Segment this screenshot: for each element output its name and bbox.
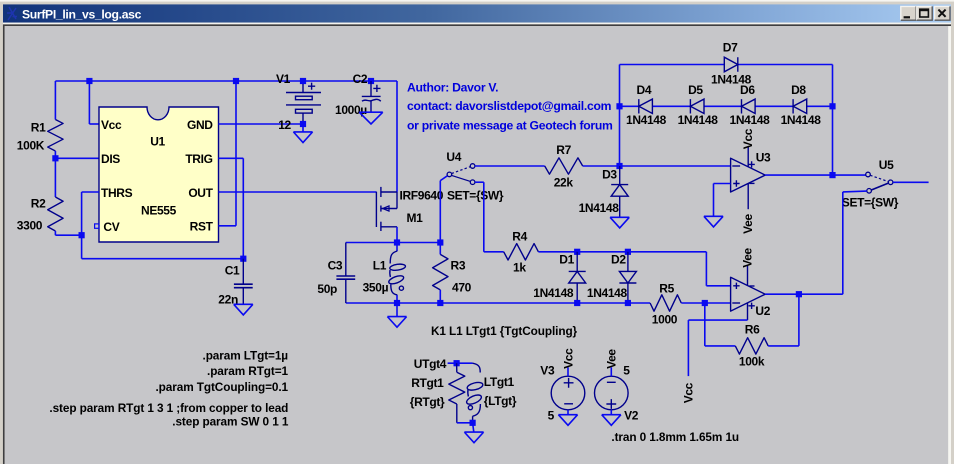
wire D3 node to U3	[620, 165, 731, 167]
diode D1	[576, 252, 578, 272]
svg-text:.param RTgt=1: .param RTgt=1	[207, 364, 289, 378]
ground U3 plus input	[704, 216, 723, 227]
svg-text:SurfPI_lin_vs_log.asc: SurfPI_lin_vs_log.asc	[22, 7, 142, 21]
node DIS junction	[52, 155, 58, 161]
node C1 junction	[240, 256, 246, 262]
V2 minus sign	[607, 381, 616, 383]
svg-text:U5: U5	[879, 158, 894, 172]
svg-text:U2: U2	[755, 304, 770, 318]
svg-text:C1: C1	[225, 264, 240, 278]
wire Vcc top rail	[55, 80, 397, 82]
diode D2	[627, 252, 629, 272]
wire right riser	[832, 65, 834, 176]
svg-text:R2: R2	[31, 197, 46, 211]
svg-text:D6: D6	[740, 83, 755, 97]
svg-text:1000: 1000	[652, 313, 678, 327]
svg-text:C2: C2	[353, 72, 368, 86]
U2 Vcc stub	[747, 303, 749, 320]
node left riser/diode-row junction	[616, 103, 622, 109]
node L1 bottom junction	[394, 300, 400, 306]
svg-text:3300: 3300	[17, 219, 43, 233]
wire left riser	[619, 65, 621, 167]
pin CV open marker	[95, 224, 99, 228]
wire GND pin to V1	[219, 123, 304, 125]
voltage source V2	[595, 376, 629, 410]
svg-text:Vee: Vee	[741, 213, 755, 233]
svg-text:R4: R4	[512, 230, 527, 244]
svg-text:.param TgtCoupling=0.1: .param TgtCoupling=0.1	[156, 380, 289, 394]
wire OUT to M1 gate	[219, 191, 377, 193]
svg-text:SET={SW}: SET={SW}	[842, 196, 899, 210]
wire R6 right riser	[798, 294, 800, 346]
svg-text:22k: 22k	[554, 175, 574, 189]
diode D3	[619, 166, 621, 185]
transistor M1 IRF9640	[375, 192, 377, 227]
svg-text:Author: Davor V.: Author: Davor V.	[407, 81, 498, 95]
node V1 bottom junction	[300, 121, 306, 127]
svg-text:R7: R7	[556, 143, 571, 157]
wire R6 left riser	[704, 303, 706, 346]
wire V1 top	[302, 81, 304, 93]
svg-text:1N4148: 1N4148	[587, 286, 628, 300]
svg-text:1N4148: 1N4148	[533, 286, 574, 300]
svg-text:1N4148: 1N4148	[781, 113, 822, 127]
svg-text:LTgt1: LTgt1	[484, 375, 515, 389]
svg-text:NE555: NE555	[141, 204, 177, 218]
svg-text:1N4148: 1N4148	[579, 201, 620, 215]
svg-text:D1: D1	[559, 252, 574, 266]
wire DIS	[55, 157, 99, 159]
resistor R1	[48, 120, 63, 152]
close button	[935, 6, 950, 20]
node U2 output junction	[796, 291, 802, 297]
node UTgt4 top junction	[454, 360, 460, 366]
node Vcc drop junction	[86, 78, 92, 84]
wire THRS	[82, 191, 99, 193]
svg-text:THRS: THRS	[101, 186, 133, 200]
svg-text:OUT: OUT	[188, 186, 213, 200]
wire D7 row	[620, 64, 725, 66]
node R5/R6 junction	[702, 300, 708, 306]
switch U4	[447, 172, 452, 177]
svg-text:D3: D3	[602, 168, 617, 182]
U2 minus input sign	[732, 302, 740, 304]
wire U4 throw2 to R4	[475, 181, 484, 183]
wire R2 to THRS column	[55, 234, 81, 236]
node R3 bottom junction	[437, 300, 443, 306]
U3 plus input sign	[733, 180, 739, 186]
wire RST to Vcc rail	[219, 225, 237, 227]
svg-text:CV: CV	[103, 220, 119, 234]
wire M1 drain	[396, 227, 398, 243]
app icon	[7, 7, 17, 20]
wire R1-R2	[54, 151, 56, 197]
capacitor C3	[345, 243, 347, 277]
wire M1 source from rail	[396, 81, 398, 192]
ground tank	[396, 303, 398, 317]
svg-text:100K: 100K	[17, 139, 45, 153]
voltage source V1 battery	[286, 92, 321, 94]
svg-text:contact: davorslistdepot@gmail: contact: davorslistdepot@gmail.com	[407, 99, 612, 113]
U3 minus input sign	[732, 165, 740, 167]
inductor LTgt1	[473, 363, 481, 372]
U2 plus input sign	[733, 283, 739, 289]
svg-text:U4: U4	[446, 150, 461, 164]
V3 minus sign	[564, 403, 573, 405]
svg-text:TRIG: TRIG	[185, 152, 212, 166]
svg-text:Vee: Vee	[741, 247, 755, 267]
resistor R6	[705, 345, 736, 347]
C2 plus sign	[373, 85, 380, 92]
voltage source V3	[551, 376, 585, 410]
node UTgt4 bottom junction	[470, 420, 476, 426]
svg-text:{LTgt}: {LTgt}	[484, 394, 517, 408]
wire UTgt4 top	[448, 362, 473, 364]
svg-text:Vcc: Vcc	[681, 382, 695, 403]
wire U5 throw2 to U2 output	[843, 190, 867, 193]
svg-text:M1: M1	[407, 211, 424, 225]
svg-text:5: 5	[548, 408, 555, 422]
node D2 top junction	[625, 249, 631, 255]
node D1 top junction	[574, 249, 580, 255]
svg-text:D7: D7	[723, 41, 738, 55]
wire R2 bottom lead	[54, 231, 56, 235]
V3 top stub	[567, 367, 569, 376]
svg-text:.param LTgt=1µ: .param LTgt=1µ	[203, 349, 289, 363]
ground C1	[234, 304, 253, 315]
svg-text:SET={SW}: SET={SW}	[447, 189, 504, 203]
ground D3	[610, 217, 629, 228]
wire tank bottom rail	[346, 302, 650, 304]
resistor R5	[650, 295, 681, 311]
op-amp U1 body (NE555 box)	[99, 107, 219, 242]
svg-text:RTgt1: RTgt1	[411, 376, 444, 390]
svg-text:or private message at Geotech: or private message at Geotech forum	[407, 119, 613, 133]
svg-text:50p: 50p	[317, 282, 337, 296]
wire tank top rail	[346, 242, 441, 244]
wire UTgt4 bottom	[457, 422, 473, 424]
wire Vcc drop	[88, 81, 90, 124]
diode D6	[742, 99, 756, 113]
wire U3 output	[765, 174, 866, 176]
wire U2 Vcc net	[688, 319, 747, 321]
svg-text:350µ: 350µ	[363, 280, 389, 294]
node D3 junction	[616, 163, 622, 169]
svg-text:100k: 100k	[739, 355, 765, 369]
wire THRS to C1	[82, 258, 244, 260]
svg-text:1N4148: 1N4148	[730, 113, 771, 127]
svg-text:D4: D4	[637, 83, 652, 97]
svg-text:R1: R1	[31, 120, 46, 134]
svg-text:V1: V1	[276, 72, 291, 86]
resistor RTgt1	[456, 363, 458, 372]
svg-text:V2: V2	[624, 408, 639, 422]
node C2 top junction	[368, 78, 374, 84]
svg-text:V3: V3	[540, 364, 555, 378]
svg-text:K1 L1 LTgt1 {TgtCoupling}: K1 L1 LTgt1 {TgtCoupling}	[431, 324, 578, 338]
V3 plus sign	[564, 378, 574, 388]
switch U5	[866, 172, 871, 177]
V1 plus sign	[308, 83, 315, 90]
U2 plus supply sign	[748, 303, 754, 309]
svg-text:.step param SW 0 1 1: .step param SW 0 1 1	[172, 415, 289, 429]
U2 Vee stub	[747, 265, 749, 286]
minimize button	[901, 6, 916, 20]
U3 Vcc stub	[747, 147, 749, 167]
svg-text:.tran 0 1.8mm 1.65m 1u: .tran 0 1.8mm 1.65m 1u	[611, 430, 739, 444]
svg-text:U3: U3	[756, 151, 771, 165]
wire R1 top lead	[54, 81, 56, 120]
node D2 bottom junction	[625, 300, 631, 306]
svg-text:Vcc: Vcc	[561, 348, 575, 369]
svg-text:D2: D2	[611, 252, 626, 266]
svg-text:R3: R3	[451, 259, 466, 273]
svg-text:Vcc: Vcc	[741, 128, 755, 149]
node U3 output junction	[829, 172, 835, 178]
diode D7	[724, 57, 738, 72]
wire R5 to U2 minus	[681, 302, 730, 304]
diode D8	[793, 99, 807, 113]
op-amp U3	[731, 158, 766, 192]
wire U4 throw1 to R7	[475, 165, 545, 167]
svg-text:D8: D8	[791, 83, 806, 97]
wire U5 common out	[893, 181, 929, 183]
svg-text:D5: D5	[688, 83, 703, 97]
wire R7 to D3 node	[583, 165, 620, 167]
svg-text:GND: GND	[187, 118, 213, 132]
svg-text:.step param RTgt 1 3 1 ;from c: .step param RTgt 1 3 1 ;from copper to l…	[49, 401, 288, 415]
V2 top stub	[610, 367, 612, 376]
wire diode row	[620, 105, 639, 107]
wire R4 to U2 row	[538, 251, 706, 253]
resistor R4	[484, 251, 504, 253]
V2 plus sign	[606, 399, 616, 409]
U3 minus supply sign	[749, 182, 754, 184]
wire TRIG	[219, 157, 244, 159]
svg-text:C3: C3	[328, 259, 343, 273]
ground UTgt4	[473, 423, 474, 432]
inductor L1	[396, 243, 398, 252]
svg-text:RST: RST	[190, 220, 214, 234]
svg-text:DIS: DIS	[101, 152, 120, 166]
ground V1	[302, 124, 304, 132]
node tank top R3 junction	[437, 239, 443, 245]
ground C2	[359, 112, 383, 124]
ground V3	[567, 410, 569, 415]
capacitor C2	[370, 81, 372, 96]
node R2/THRS junction	[79, 232, 85, 238]
node RST rail junction	[233, 78, 239, 84]
svg-text:1k: 1k	[513, 261, 526, 275]
ground V2	[610, 410, 612, 415]
svg-text:UTgt4: UTgt4	[414, 357, 447, 371]
node D1 bottom junction	[574, 300, 580, 306]
svg-text:Vcc: Vcc	[101, 118, 122, 132]
diode D4	[639, 99, 653, 113]
node M1 drain junction	[394, 239, 400, 245]
node right riser/diode-row junction	[829, 103, 835, 109]
U2 minus supply sign	[749, 285, 754, 287]
wire U4 common	[440, 176, 447, 181]
resistor R3	[439, 243, 441, 255]
svg-text:IRF9640: IRF9640	[400, 188, 444, 202]
op-amp U2	[731, 277, 766, 311]
svg-text:470: 470	[452, 280, 472, 294]
svg-text:Vee: Vee	[605, 349, 619, 369]
U3 plus supply sign	[748, 161, 754, 167]
node V1 top junction	[300, 78, 306, 84]
resistor R2	[48, 197, 63, 231]
wire U3 plus input to ground	[714, 183, 731, 185]
svg-text:R5: R5	[659, 282, 674, 296]
svg-text:L1: L1	[373, 259, 387, 273]
svg-text:5: 5	[623, 364, 630, 378]
svg-text:R6: R6	[745, 323, 760, 337]
diode D5	[690, 99, 704, 113]
U3 Vee stub	[747, 183, 749, 209]
capacitor C1	[242, 259, 244, 285]
svg-text:12: 12	[278, 118, 291, 132]
maximize button	[917, 6, 932, 20]
wire U2 output	[765, 293, 799, 295]
svg-text:{RTgt}: {RTgt}	[410, 395, 445, 409]
svg-text:1N4148: 1N4148	[626, 113, 667, 127]
svg-text:1N4148: 1N4148	[678, 113, 719, 127]
resistor R7	[545, 158, 583, 174]
svg-text:U1: U1	[150, 135, 165, 149]
